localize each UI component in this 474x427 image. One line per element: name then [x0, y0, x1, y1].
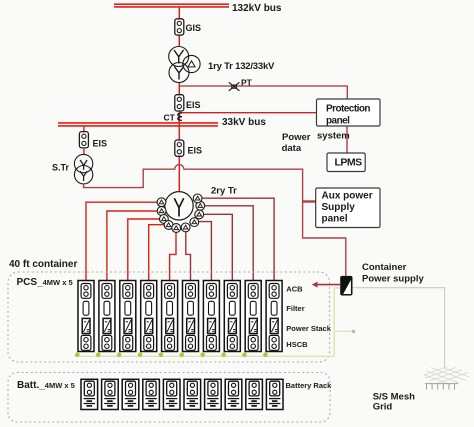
wire L5 to PCS5	[170, 229, 176, 281]
wire R1 to PCS10	[198, 198, 275, 280]
transformer U2 2ry Tr big circle	[165, 192, 193, 220]
converter PCS7	[203, 281, 219, 352]
node DC junction dot 6	[180, 353, 185, 358]
svg-text:HSCB: HSCB	[286, 340, 308, 349]
transformer U1 1ry Tr	[169, 47, 200, 83]
wire arrow container supply to ACB	[317, 284, 340, 286]
wire R3 to PCS8	[199, 214, 232, 280]
svg-text:40 ft container: 40 ft container	[9, 259, 77, 270]
wire L2 to PCS2	[107, 211, 162, 281]
converter PCS3	[120, 281, 136, 352]
wire main vertical feeder x=179.3	[178, 7, 180, 192]
winding W8 of 2ry Tr	[195, 210, 204, 219]
svg-text:33kV bus: 33kV bus	[222, 117, 266, 128]
converter PCS5	[162, 281, 178, 352]
svg-text:Aux power: Aux power	[322, 191, 373, 202]
svg-text:CT: CT	[164, 113, 176, 123]
wire R4 to PCS7	[194, 222, 211, 281]
battery rack B1	[81, 379, 98, 409]
svg-text:Container: Container	[362, 262, 407, 273]
winding W2 of 2ry Tr	[157, 207, 166, 216]
node DC junction dot 10	[263, 353, 268, 358]
svg-text:EIS: EIS	[188, 146, 203, 156]
svg-text:PT: PT	[241, 78, 253, 88]
bus DC pale link line	[75, 288, 341, 356]
node DC junction dot 4	[138, 353, 143, 358]
node DC dots under PCS units	[75, 353, 268, 358]
svg-text:data: data	[282, 143, 302, 154]
svg-text:LPMS: LPMS	[335, 156, 363, 168]
svg-text:Power: Power	[282, 132, 311, 143]
battery rack B7	[205, 379, 222, 409]
wire PT line to protection panel	[179, 86, 347, 99]
winding W10 of 2ry Tr	[193, 194, 202, 203]
battery rack B5	[163, 379, 180, 409]
svg-text:Battery Rack: Battery Rack	[286, 381, 333, 390]
svg-text:Grid: Grid	[373, 401, 393, 412]
wire left branch from 33kV bus	[83, 126, 85, 154]
converter PCS1	[78, 281, 94, 352]
panel LPMS	[327, 153, 365, 172]
node DC junction dot 9	[242, 353, 247, 358]
converter PCS9	[245, 281, 261, 352]
wire L4 to PCS4	[149, 225, 169, 281]
transformer 2ry Tr windings (10 delta)	[157, 194, 205, 232]
svg-text:panel: panel	[326, 115, 350, 126]
wire ground link grey	[353, 288, 445, 368]
switch GIS	[175, 19, 201, 35]
node DC junction dot 8	[221, 353, 226, 358]
svg-text:Batt._4MW x 5: Batt._4MW x 5	[17, 380, 75, 391]
node DC junction dot 2	[96, 353, 101, 358]
svg-text:panel: panel	[322, 213, 348, 224]
panel Aux power Supply panel	[316, 188, 380, 228]
transducer PT	[229, 82, 240, 91]
transformer S.Tr	[74, 154, 92, 183]
svg-text:system: system	[317, 130, 350, 141]
33kV bus	[58, 123, 218, 126]
battery rack B4	[143, 379, 160, 409]
wire CT line to protection panel	[179, 112, 317, 114]
svg-text:PCS_4MW x 5: PCS_4MW x 5	[17, 277, 73, 288]
node DC junction dot 1	[75, 353, 80, 358]
battery rack B9	[246, 379, 263, 409]
battery rack B3	[122, 379, 139, 409]
svg-text:2ry Tr: 2ry Tr	[211, 186, 237, 197]
node DC junction dot 5	[159, 353, 164, 358]
wire S.Tr to aux power route (with hop)	[84, 165, 346, 276]
node grey dot	[352, 330, 356, 334]
winding W6 of 2ry Tr	[181, 223, 190, 232]
svg-text:Power supply: Power supply	[362, 273, 424, 284]
svg-text:Supply: Supply	[322, 202, 356, 213]
battery rack B10	[266, 379, 283, 409]
wire L1 to PCS1	[86, 202, 162, 280]
converter PCS10	[266, 281, 282, 352]
svg-text:EIS: EIS	[186, 100, 201, 110]
battery rack B8	[225, 379, 242, 409]
switch EIS (main, upper)	[175, 95, 201, 111]
converter PCS2	[99, 281, 115, 352]
svg-text:EIS: EIS	[93, 139, 108, 149]
svg-text:Power Stack: Power Stack	[286, 324, 331, 333]
battery rack B2	[102, 379, 119, 409]
winding W3 of 2ry Tr	[160, 215, 169, 224]
container 40ft PCS dashed box	[8, 272, 330, 362]
switch EIS (main, lower)	[175, 140, 202, 156]
winding W7 of 2ry Tr	[190, 218, 199, 227]
ground S/S mesh grid	[424, 367, 470, 385]
svg-text:Protection: Protection	[326, 104, 370, 115]
container battery dashed box	[8, 373, 330, 423]
winding W9 of 2ry Tr	[196, 201, 205, 210]
wire stub into Aux panel	[303, 200, 317, 202]
wire R2 to PCS9	[200, 206, 253, 281]
svg-text:S.Tr: S.Tr	[52, 163, 70, 173]
svg-text:GIS: GIS	[186, 23, 202, 33]
winding W1 of 2ry Tr	[157, 198, 166, 207]
svg-text:Filter: Filter	[286, 304, 304, 313]
wire pale leader to dot	[334, 330, 352, 332]
wire R5 to PCS6	[186, 229, 191, 281]
panel Protection panel	[317, 99, 381, 126]
transducer CT	[178, 113, 182, 120]
winding W5 of 2ry Tr	[172, 224, 181, 233]
supply Container Power supply symbol	[340, 276, 352, 296]
svg-text:132kV bus: 132kV bus	[232, 3, 282, 14]
132kV bus	[114, 4, 229, 7]
converter PCS8	[224, 281, 240, 352]
converter PCS6	[183, 281, 199, 352]
battery rack B6	[184, 379, 201, 409]
node DC junction dot 3	[117, 353, 122, 358]
svg-text:1ry Tr 132/33kV: 1ry Tr 132/33kV	[208, 61, 275, 72]
node DC junction dot 7	[200, 353, 205, 358]
wire L3 to PCS3	[128, 219, 164, 281]
wire protection to LPMS	[346, 126, 348, 153]
switch EIS (left branch)	[79, 132, 107, 149]
svg-text:ACB: ACB	[286, 284, 303, 293]
winding W4 of 2ry Tr	[164, 221, 173, 230]
converter PCS4	[141, 281, 157, 352]
